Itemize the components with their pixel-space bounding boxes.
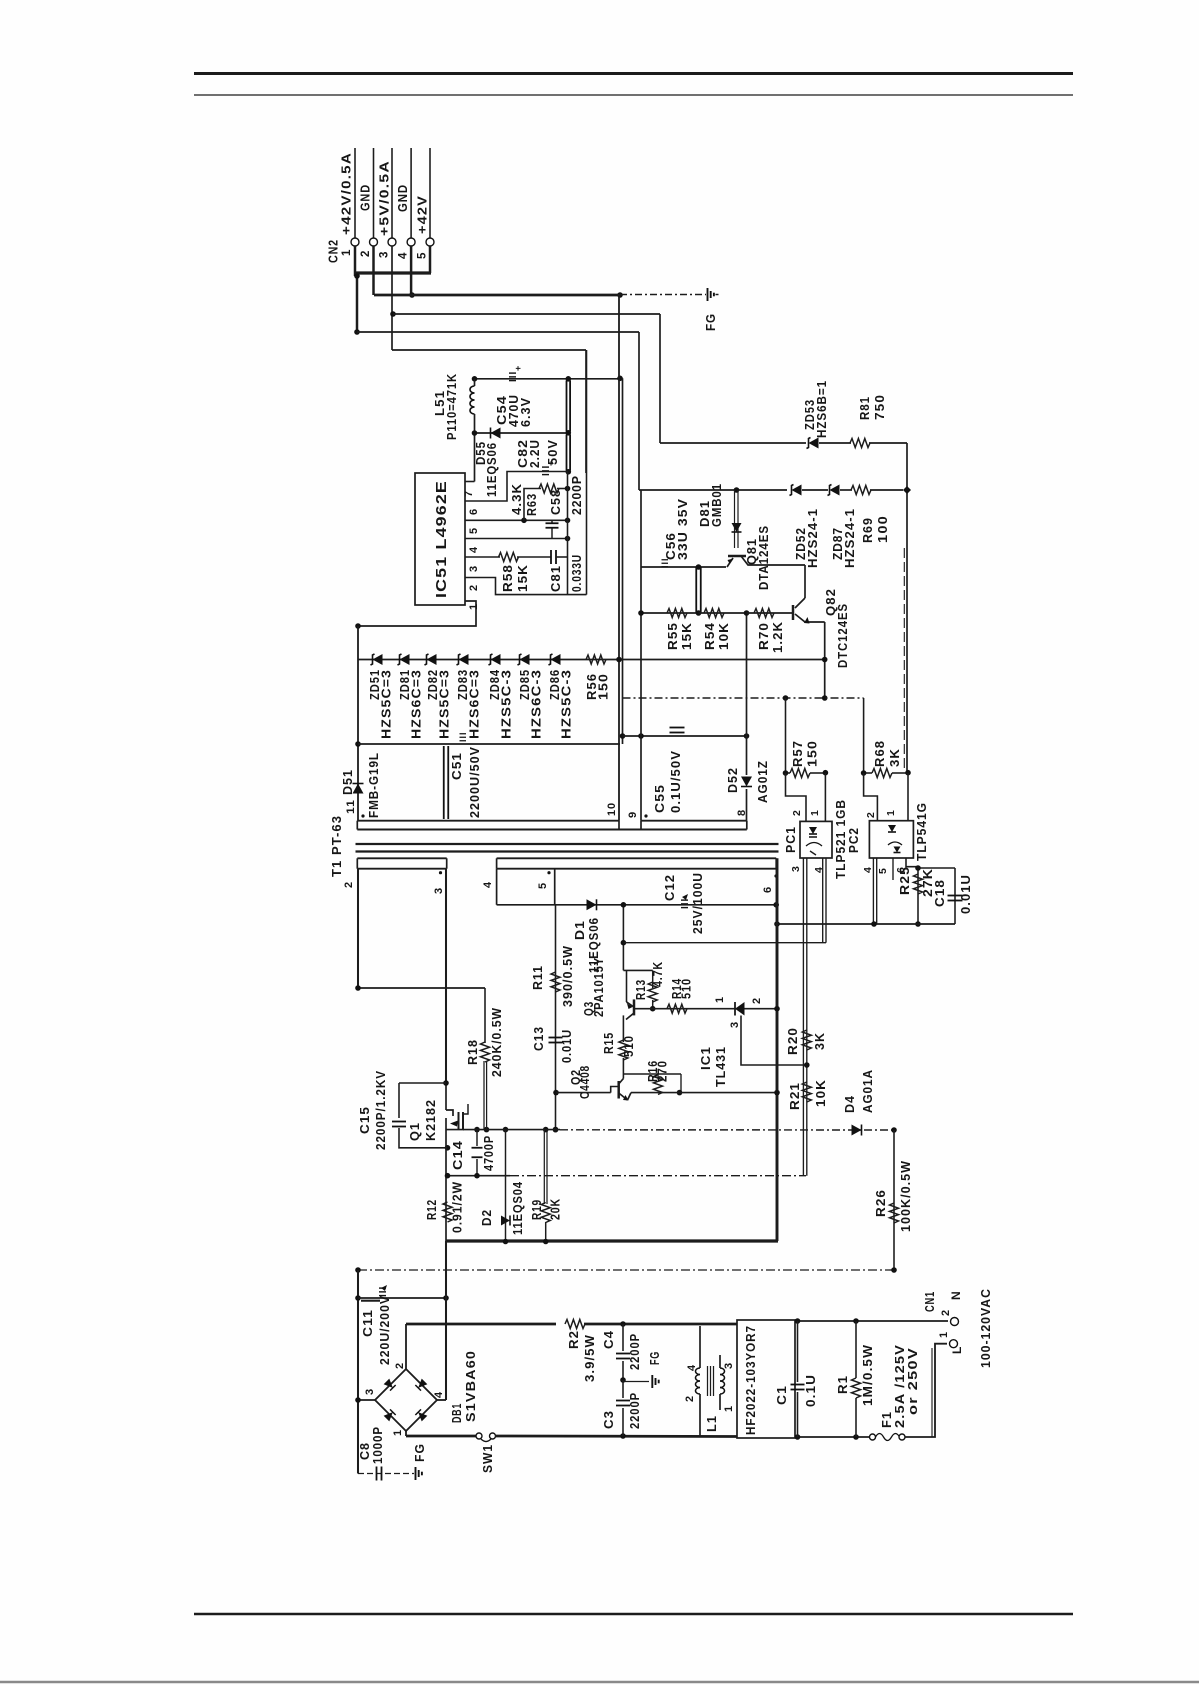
svg-text:2: 2 [751, 997, 763, 1004]
svg-text:2200U/50V: 2200U/50V [468, 746, 482, 818]
svg-text:Q1: Q1 [408, 1122, 422, 1141]
svg-text:FG: FG [703, 313, 718, 331]
svg-text:2: 2 [684, 1395, 696, 1402]
svg-text:4: 4 [398, 252, 410, 259]
svg-text:2.2U: 2.2U [528, 439, 542, 468]
svg-text:10: 10 [606, 802, 618, 816]
svg-text:HZS24-1: HZS24-1 [806, 508, 820, 568]
svg-text:220U/200V: 220U/200V [378, 1295, 392, 1365]
svg-text:3: 3 [379, 251, 391, 258]
svg-text:3K: 3K [888, 748, 902, 767]
svg-text:GND: GND [396, 184, 410, 212]
svg-text:D52: D52 [726, 767, 740, 793]
svg-text:IC51 L4962E: IC51 L4962E [433, 480, 450, 598]
svg-text:6.3V: 6.3V [519, 397, 533, 427]
svg-text:+: + [513, 365, 523, 371]
svg-text:GND: GND [359, 184, 373, 211]
svg-text:C51: C51 [450, 752, 464, 780]
svg-text:D2: D2 [480, 1209, 494, 1226]
svg-text:150: 150 [597, 673, 611, 700]
svg-text:C1: C1 [775, 1385, 789, 1405]
svg-text:R13: R13 [634, 979, 648, 1000]
svg-text:R70: R70 [757, 622, 771, 650]
svg-text:C55: C55 [653, 784, 667, 813]
svg-text:1000P: 1000P [371, 1426, 385, 1464]
svg-text:D4: D4 [843, 1095, 857, 1113]
svg-text:D1: D1 [573, 920, 587, 940]
svg-text:AG01Z: AG01Z [756, 760, 770, 803]
svg-text:2: 2 [394, 1362, 406, 1369]
svg-text:4: 4 [686, 1364, 698, 1371]
svg-text:or 250V: or 250V [906, 1347, 920, 1415]
svg-text:1: 1 [809, 809, 821, 816]
svg-text:5: 5 [468, 527, 480, 534]
svg-text:270: 270 [656, 1060, 670, 1082]
svg-text:510: 510 [622, 1035, 636, 1057]
svg-text:K2182: K2182 [424, 1099, 438, 1141]
svg-text:R1: R1 [836, 1375, 850, 1394]
svg-text:1: 1 [723, 1405, 735, 1412]
svg-text:C81: C81 [549, 565, 563, 592]
svg-text:R11: R11 [531, 965, 545, 990]
svg-text:2: 2 [791, 809, 803, 816]
svg-text:PC1: PC1 [784, 826, 798, 853]
svg-text:0.1U: 0.1U [804, 1374, 818, 1407]
svg-text:TL431: TL431 [714, 1046, 728, 1087]
svg-text:1M/0.5W: 1M/0.5W [861, 1344, 875, 1406]
svg-text:240K/0.5W: 240K/0.5W [490, 1007, 504, 1077]
svg-text:R58: R58 [501, 564, 515, 592]
svg-text:FMB-G19L: FMB-G19L [367, 752, 381, 818]
svg-text:15K: 15K [680, 622, 694, 650]
svg-text:4: 4 [482, 881, 494, 888]
svg-text:R15: R15 [602, 1032, 616, 1054]
svg-text:9: 9 [627, 811, 639, 818]
svg-text:11: 11 [345, 799, 357, 814]
svg-text:D51: D51 [341, 769, 355, 795]
svg-text:2.5A /125V: 2.5A /125V [893, 1344, 907, 1428]
svg-text:100: 100 [876, 515, 890, 543]
svg-text:3: 3 [468, 565, 480, 572]
svg-text:7: 7 [463, 490, 475, 497]
svg-text:390/0.5W: 390/0.5W [561, 945, 575, 1007]
svg-text:F1: F1 [880, 1411, 894, 1428]
svg-text:HZS6C-3: HZS6C-3 [530, 669, 544, 739]
svg-text:R18: R18 [466, 1039, 480, 1065]
svg-text:0.91/2W: 0.91/2W [451, 1181, 465, 1233]
svg-text:S1VBA60: S1VBA60 [464, 1350, 478, 1422]
svg-text:C12: C12 [663, 874, 677, 901]
svg-text:5: 5 [417, 252, 429, 259]
svg-text:2200P/1.2KV: 2200P/1.2KV [374, 1070, 388, 1150]
svg-text:IC1: IC1 [699, 1046, 713, 1070]
svg-text:DB1: DB1 [450, 1403, 464, 1423]
svg-text:11EQS06: 11EQS06 [485, 442, 499, 497]
svg-text:R55: R55 [666, 622, 680, 650]
svg-text:C11: C11 [361, 1309, 375, 1337]
svg-text:R19: R19 [530, 1199, 544, 1220]
svg-text:R25: R25 [898, 866, 912, 895]
svg-text:1: 1 [392, 1429, 404, 1436]
svg-text:750: 750 [873, 394, 887, 420]
svg-text:2: 2 [865, 811, 877, 818]
svg-text:510: 510 [680, 978, 694, 999]
svg-text:4: 4 [433, 1391, 445, 1398]
svg-text:HZS5C=3: HZS5C=3 [438, 669, 452, 739]
svg-text:GMB01: GMB01 [710, 483, 724, 527]
svg-text:4: 4 [862, 866, 874, 873]
svg-text:4: 4 [468, 546, 480, 553]
svg-text:10K: 10K [814, 1079, 828, 1107]
svg-text:2PA1015Y: 2PA1015Y [592, 957, 606, 1017]
svg-text:1: 1 [714, 996, 726, 1003]
svg-text:C4408: C4408 [578, 1065, 592, 1099]
svg-text:2: 2 [343, 881, 355, 888]
svg-text:1: 1 [938, 1331, 950, 1338]
svg-text:DTC124ES: DTC124ES [836, 603, 850, 668]
svg-text:3: 3 [729, 1021, 741, 1028]
svg-text:PC2: PC2 [847, 827, 861, 853]
svg-text:C4: C4 [602, 1330, 616, 1349]
svg-text:+5V/0.5A: +5V/0.5A [378, 160, 392, 236]
svg-text:R20: R20 [786, 1027, 800, 1055]
svg-text:SW1: SW1 [481, 1444, 495, 1473]
svg-text:4.7K: 4.7K [651, 961, 665, 987]
svg-text:3.9/5W: 3.9/5W [583, 1334, 597, 1382]
svg-text:3: 3 [723, 1362, 735, 1369]
svg-text:50V: 50V [546, 439, 560, 465]
svg-text:R2: R2 [567, 1330, 581, 1349]
svg-text:100-120VAC: 100-120VAC [979, 1288, 993, 1368]
svg-text:4.3K: 4.3K [510, 483, 524, 515]
svg-text:C58: C58 [549, 489, 563, 515]
svg-text:C8: C8 [358, 1442, 372, 1460]
svg-text:+42V/0.5A: +42V/0.5A [340, 152, 354, 235]
svg-text:1.2K: 1.2K [771, 621, 785, 653]
svg-text:5: 5 [877, 867, 889, 874]
svg-text:FG: FG [413, 1443, 427, 1462]
svg-text:10K: 10K [717, 622, 731, 650]
svg-text:TLP541G: TLP541G [915, 802, 929, 861]
svg-text:TLP521 1GB: TLP521 1GB [834, 799, 848, 879]
svg-text:CN2: CN2 [327, 239, 341, 263]
svg-text:3: 3 [790, 865, 802, 872]
svg-text:2200P: 2200P [570, 475, 584, 515]
svg-text:100K/0.5W: 100K/0.5W [899, 1160, 913, 1232]
svg-text:2200P: 2200P [628, 1333, 642, 1370]
svg-text:CN1: CN1 [923, 1291, 937, 1312]
svg-text:L1: L1 [705, 1415, 719, 1432]
svg-text:HF2022-103YOR7: HF2022-103YOR7 [744, 1325, 758, 1435]
svg-text:C13: C13 [532, 1026, 546, 1051]
svg-text:0.01U: 0.01U [959, 874, 973, 914]
svg-text:3: 3 [433, 887, 445, 894]
svg-text:HZS5C-3: HZS5C-3 [500, 669, 514, 739]
svg-text:HZS6C=3: HZS6C=3 [468, 669, 482, 739]
svg-text:6: 6 [762, 886, 774, 893]
svg-text:HZS5C-3: HZS5C-3 [560, 669, 574, 739]
svg-text:R12: R12 [425, 1199, 439, 1220]
svg-text:C18: C18 [933, 879, 947, 907]
svg-text:2: 2 [940, 1309, 952, 1316]
svg-text:R26: R26 [874, 1189, 888, 1217]
svg-text:3: 3 [364, 1388, 376, 1395]
svg-text:20K: 20K [549, 1198, 563, 1220]
svg-text:C3: C3 [602, 1410, 616, 1429]
svg-text:T1 PT-63: T1 PT-63 [330, 815, 344, 877]
svg-text:R54: R54 [703, 622, 717, 650]
svg-text:2200P: 2200P [628, 1392, 642, 1429]
svg-text:R63: R63 [525, 493, 539, 516]
svg-text:6: 6 [468, 508, 480, 515]
svg-text:DTA124ES: DTA124ES [757, 525, 771, 590]
svg-text:1: 1 [885, 809, 897, 816]
svg-text:R57: R57 [791, 740, 805, 767]
svg-text:III: III [458, 731, 468, 742]
svg-text:HZS24-1: HZS24-1 [843, 508, 857, 568]
svg-text:HZS6C=3: HZS6C=3 [410, 669, 424, 739]
svg-text:0.1U/50V: 0.1U/50V [669, 750, 683, 813]
svg-text:C15: C15 [358, 1106, 372, 1134]
svg-text:25V/100U: 25V/100U [691, 872, 705, 934]
svg-text:3K: 3K [813, 1032, 827, 1050]
svg-text:HZS5C=3: HZS5C=3 [380, 669, 394, 739]
svg-text:0.01U: 0.01U [560, 1029, 574, 1063]
svg-text:1: 1 [468, 603, 480, 610]
svg-text:HZS6B=1: HZS6B=1 [815, 380, 829, 438]
svg-text:8: 8 [736, 809, 748, 816]
svg-text:1: 1 [341, 249, 353, 256]
svg-text:R69: R69 [861, 517, 875, 543]
svg-text:R68: R68 [873, 740, 887, 767]
svg-text:15K: 15K [516, 564, 530, 592]
svg-text:L: L [950, 1346, 964, 1354]
svg-text:N: N [949, 1290, 963, 1300]
svg-text:0.033U: 0.033U [570, 554, 584, 592]
svg-text:33U 35V: 33U 35V [676, 498, 690, 560]
svg-text:AG01A: AG01A [861, 1069, 875, 1113]
svg-text:FG: FG [648, 1351, 662, 1365]
svg-text:C14: C14 [451, 1140, 465, 1170]
svg-text:5: 5 [537, 882, 549, 889]
svg-text:11EQS04: 11EQS04 [511, 1181, 525, 1235]
svg-text:2: 2 [468, 584, 480, 591]
svg-text:P110=471K: P110=471K [445, 373, 459, 440]
svg-text:R21: R21 [788, 1082, 802, 1110]
svg-text:III: III [508, 371, 519, 382]
svg-text:150: 150 [806, 740, 820, 767]
svg-text:+42V: +42V [416, 195, 430, 234]
svg-text:R81: R81 [858, 396, 872, 420]
svg-text:4700P: 4700P [482, 1135, 496, 1171]
svg-text:2: 2 [360, 250, 372, 257]
